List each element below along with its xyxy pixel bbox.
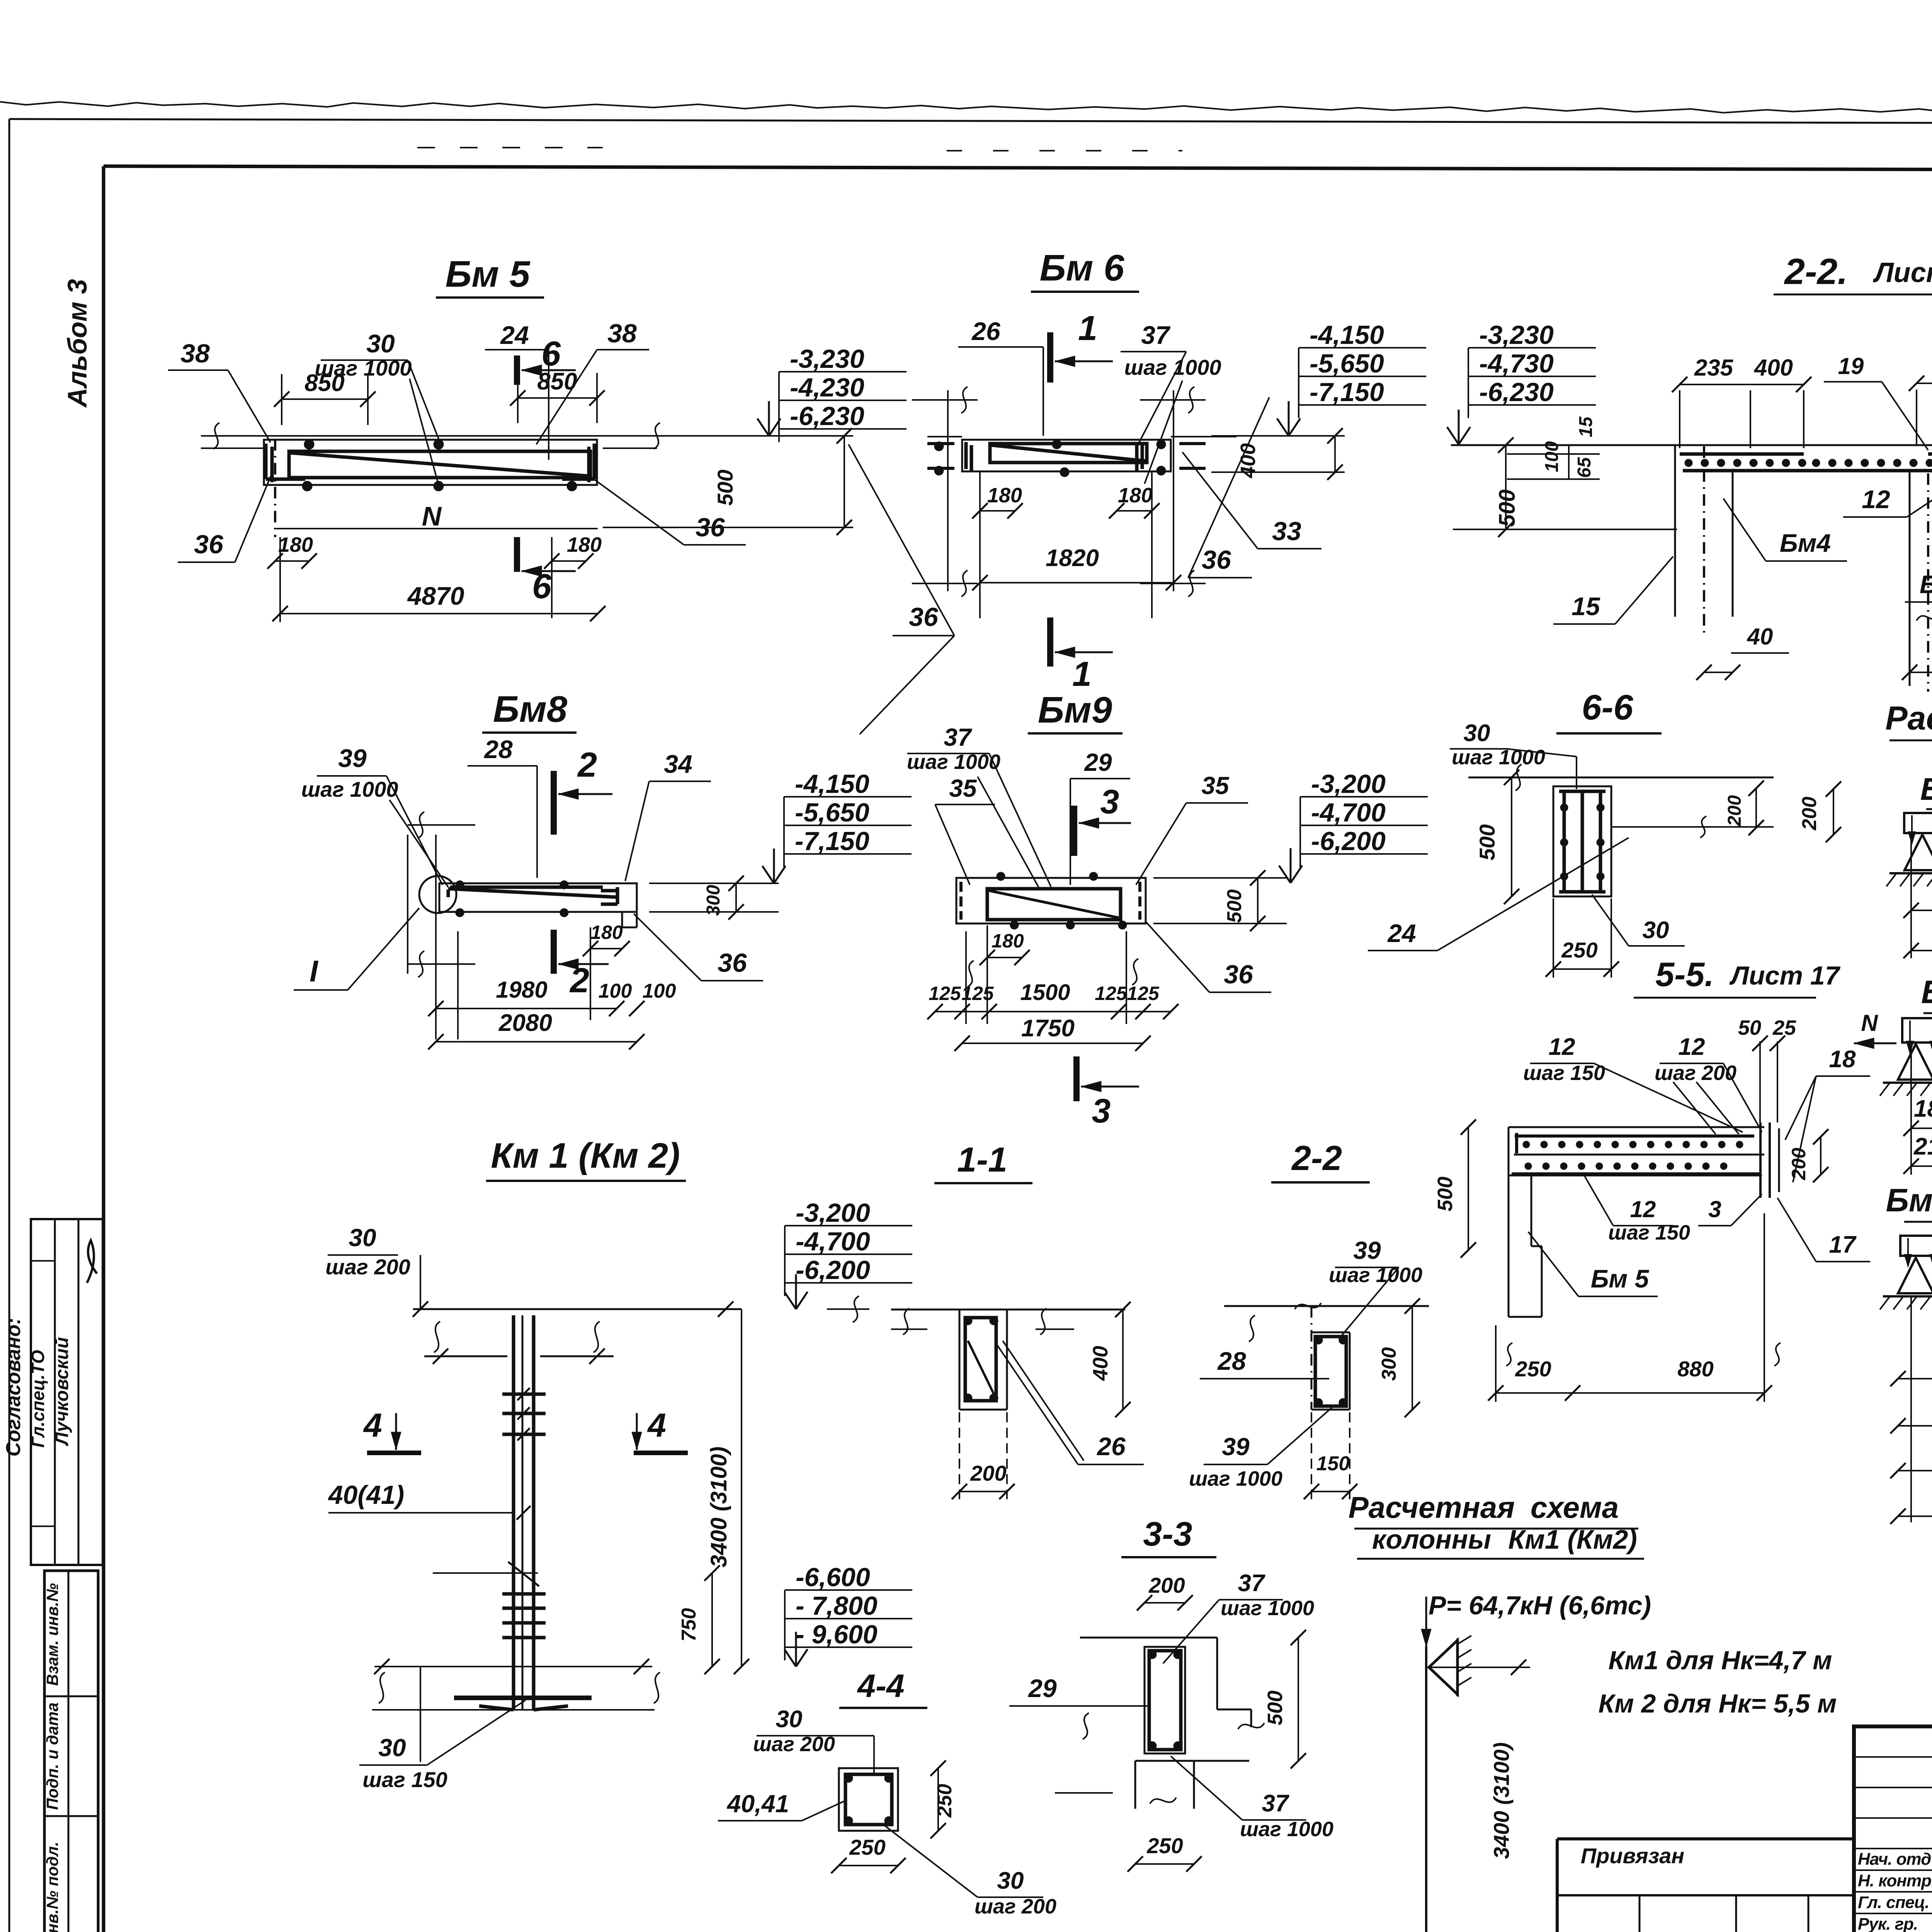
svg-text:-6,200: -6,200 — [796, 1255, 870, 1285]
svg-text:Нач. отд: Нач. отд — [1858, 1850, 1931, 1869]
lower stamp table (Взам.инв.№ / Подп. и дата / Инв.№ подл.) — [44, 1571, 98, 1932]
svg-text:Гл. спец.: Гл. спец. — [1858, 1893, 1929, 1912]
3-3 column outline — [1145, 1647, 1185, 1753]
svg-text:-7,150: -7,150 — [795, 827, 869, 856]
5-5 slab body — [1509, 1126, 1764, 1128]
svg-text:Взам. инв.№: Взам. инв.№ — [43, 1583, 61, 1686]
svg-text:Н. контр.: Н. контр. — [1858, 1871, 1932, 1890]
svg-text:500: 500 — [1264, 1690, 1287, 1725]
Бм9 rebar dots — [997, 872, 1005, 881]
svg-text:38: 38 — [607, 319, 637, 348]
svg-text:шаг 1000: шаг 1000 — [1189, 1467, 1282, 1490]
top line — [413, 1308, 742, 1310]
svg-text:150: 150 — [1316, 1452, 1350, 1475]
Бм6 rebar dots — [1052, 440, 1061, 449]
bottom lines — [374, 1666, 652, 1667]
svg-text:12: 12 — [1862, 485, 1890, 514]
dim 500 (5-5) — [1468, 1127, 1469, 1250]
column bar hooks bottom — [479, 1706, 514, 1710]
svg-text:-6,230: -6,230 — [790, 401, 864, 431]
svg-text:15: 15 — [1576, 416, 1596, 437]
svg-text:4: 4 — [647, 1407, 666, 1444]
extension lines — [1910, 1295, 1912, 1522]
svg-text:Км 2 для Нк= 5,5 м: Км 2 для Нк= 5,5 м — [1599, 1689, 1837, 1718]
scan dash artifacts below top border — [417, 147, 603, 148]
svg-text:125: 125 — [1127, 983, 1160, 1004]
svg-text:шаг 1000: шаг 1000 — [1221, 1597, 1314, 1620]
3-3 bottom — [1135, 1760, 1249, 1762]
beam w/ load — [1902, 1018, 1932, 1043]
svg-text:Подп. и дата: Подп. и дата — [43, 1702, 61, 1810]
vertical guides — [435, 835, 437, 1039]
svg-text:Гл.спец.ТО: Гл.спец.ТО — [28, 1350, 48, 1447]
Бм8 bold rebar — [448, 889, 618, 897]
svg-text:Км 1 (Км 2): Км 1 (Км 2) — [491, 1136, 680, 1175]
svg-text:-7,150: -7,150 — [1310, 378, 1384, 407]
dim 500 right of Бм9 — [1153, 877, 1287, 879]
Бм9 inner bold rect + diagonal — [987, 889, 1121, 920]
svg-text:39: 39 — [1353, 1236, 1381, 1264]
svg-text:200: 200 — [970, 1461, 1006, 1485]
svg-text:300: 300 — [1378, 1347, 1400, 1381]
svg-text:180: 180 — [278, 533, 313, 556]
6-6 dim 500 — [1511, 777, 1512, 896]
1-1 slab + walls — [891, 1309, 1125, 1311]
svg-text:29: 29 — [1027, 1674, 1057, 1702]
svg-text:шаг 1000: шаг 1000 — [1452, 746, 1545, 769]
svg-text:36: 36 — [194, 530, 224, 559]
svg-text:36: 36 — [1224, 960, 1253, 989]
svg-text:3400 (3100): 3400 (3100) — [706, 1447, 731, 1568]
6-6 top slab line — [1468, 777, 1774, 779]
svg-text:шаг 1000: шаг 1000 — [1240, 1818, 1333, 1841]
svg-text:Бм7: Бм7 — [1920, 570, 1932, 599]
svg-text:1820: 1820 — [1046, 545, 1099, 571]
svg-text:шаг 150: шаг 150 — [362, 1767, 447, 1792]
svg-text:40,41: 40,41 — [726, 1790, 789, 1818]
svg-text:34: 34 — [664, 750, 692, 778]
svg-text:30: 30 — [1643, 917, 1669, 944]
svg-text:1500: 1500 — [1020, 980, 1070, 1005]
svg-text:4870: 4870 — [407, 582, 464, 610]
svg-text:26: 26 — [971, 317, 1001, 345]
svg-text:40: 40 — [1747, 624, 1773, 650]
svg-text:17: 17 — [1829, 1231, 1857, 1258]
hinge symbol — [1429, 1640, 1458, 1694]
svg-text:колонны: колонны — [1372, 1524, 1491, 1554]
column scheme line — [1425, 1597, 1427, 1647]
svg-text:Бм 5: Бм 5 — [1591, 1264, 1650, 1293]
svg-text:-4,150: -4,150 — [1310, 320, 1384, 350]
svg-text:-6,200: -6,200 — [1311, 827, 1386, 856]
Бм5 dim 500 (right) — [603, 435, 853, 436]
2-2 right wall — [1909, 471, 1911, 686]
marker 3 bottom — [1073, 1056, 1080, 1101]
svg-text:Бм9: Бм9 — [1038, 689, 1112, 731]
svg-text:850: 850 — [304, 370, 344, 396]
svg-text:Согласовано:: Согласовано: — [2, 1318, 25, 1456]
inner drawing frame — [104, 166, 1932, 171]
svg-text:Бм 6: Бм 6 — [1039, 247, 1124, 289]
svg-text:24: 24 — [500, 321, 529, 349]
svg-text:1980: 1980 — [496, 977, 547, 1003]
supports — [1905, 835, 1932, 870]
title block main outline — [1854, 1726, 1932, 1932]
svg-text:12: 12 — [1630, 1196, 1656, 1222]
svg-text:200: 200 — [1798, 797, 1821, 831]
3-3 dim 500 — [1298, 1638, 1299, 1761]
svg-text:880: 880 — [1677, 1357, 1713, 1381]
Бм5 beam outline — [264, 440, 597, 485]
svg-text:250: 250 — [849, 1835, 885, 1859]
svg-text:39: 39 — [338, 744, 367, 772]
svg-text:200: 200 — [1725, 795, 1745, 827]
svg-text:шаг 200: шаг 200 — [325, 1255, 410, 1279]
svg-text:2: 2 — [569, 961, 589, 1000]
right soffit line — [1611, 826, 1774, 828]
svg-text:850: 850 — [537, 368, 577, 395]
svg-text:4-4: 4-4 — [857, 1668, 904, 1704]
1-1 rebar cage — [965, 1318, 996, 1401]
svg-text:30: 30 — [776, 1706, 803, 1733]
2-2 dim 500 — [1505, 445, 1507, 529]
svg-text:1750: 1750 — [1021, 1015, 1075, 1042]
3-3 top slab line — [1080, 1637, 1217, 1639]
svg-text:N: N — [422, 501, 442, 531]
svg-text:Лист 17: Лист 17 — [1729, 961, 1840, 990]
svg-text:Бм 1,Бм 7: Бм 1,Бм 7 — [1920, 772, 1932, 807]
svg-text:3: 3 — [1092, 1092, 1111, 1130]
4-4 dim 250 right — [937, 1768, 939, 1831]
svg-text:180: 180 — [987, 484, 1022, 507]
marker 2 bottom — [551, 930, 557, 974]
svg-text:400: 400 — [1754, 355, 1793, 381]
supports x3 — [1898, 1044, 1932, 1080]
svg-text:30: 30 — [366, 329, 395, 358]
svg-text:-5,650: -5,650 — [1310, 349, 1384, 378]
svg-text:1: 1 — [1078, 309, 1097, 348]
Бм6 beam outline — [962, 440, 1171, 471]
svg-text:125: 125 — [929, 983, 961, 1004]
shoulder lines — [424, 1355, 507, 1357]
svg-text:30: 30 — [349, 1224, 376, 1252]
dim 750 — [433, 1572, 538, 1574]
beam w/ load Бм1Бм7 — [1904, 813, 1932, 833]
svg-text:-4,230: -4,230 — [790, 373, 864, 402]
svg-text:I: I — [310, 954, 318, 988]
Бм8 beam outline — [407, 835, 408, 974]
svg-text:37: 37 — [944, 723, 973, 751]
svg-text:-4,150: -4,150 — [795, 769, 869, 799]
svg-text:29: 29 — [1084, 748, 1112, 776]
column bars — [512, 1315, 515, 1710]
bold vertical rebars — [1563, 791, 1566, 892]
svg-text:12: 12 — [1549, 1034, 1575, 1060]
svg-text:Бм2,Бм4: Бм2,Бм4 — [1921, 974, 1932, 1010]
Бм9 left/right hooks — [959, 882, 963, 920]
Бм5 bent rebar (bold) — [289, 451, 590, 478]
2-2 rebar cage — [1315, 1337, 1346, 1406]
svg-text:Бм4: Бм4 — [1780, 529, 1831, 557]
svg-text:3400 (3100): 3400 (3100) — [1489, 1742, 1514, 1859]
svg-text:5-5.: 5-5. — [1655, 955, 1714, 993]
svg-text:18: 18 — [1829, 1046, 1856, 1073]
svg-text:-3,230: -3,230 — [790, 344, 864, 374]
svg-text:250: 250 — [1561, 938, 1597, 962]
svg-text:37: 37 — [1262, 1790, 1289, 1817]
svg-text:P= 64,7кН (6,6тс): P= 64,7кН (6,6тс) — [1429, 1591, 1651, 1620]
svg-text:3: 3 — [1100, 782, 1119, 821]
svg-text:33: 33 — [1272, 517, 1301, 546]
svg-text:125: 125 — [1095, 983, 1128, 1004]
svg-text:3: 3 — [1708, 1196, 1721, 1222]
dims 3410/4570 — [1910, 837, 1912, 958]
svg-text:500: 500 — [1223, 889, 1246, 923]
outer sheet border — [9, 119, 1932, 124]
svg-text:180: 180 — [567, 533, 602, 556]
stirrup ticks upper — [502, 1393, 546, 1396]
svg-text:2125: 2125 — [1913, 1133, 1932, 1160]
svg-text:Км1 для Нк=4,7 м: Км1 для Нк=4,7 м — [1608, 1646, 1832, 1675]
svg-text:-3,200: -3,200 — [1311, 769, 1386, 799]
stirrup ticks lower — [502, 1592, 546, 1596]
svg-text:-6,230: -6,230 — [1479, 378, 1554, 407]
svg-text:-3,200: -3,200 — [796, 1198, 870, 1228]
approval stamp table (Согласовано) — [31, 1219, 103, 1565]
svg-text:500: 500 — [1475, 824, 1499, 860]
svg-text:-4,730: -4,730 — [1479, 349, 1554, 378]
svg-text:4: 4 — [363, 1407, 382, 1444]
dim 200 right — [1820, 1137, 1821, 1175]
svg-text:36: 36 — [1202, 545, 1231, 575]
4-4 square section — [839, 1768, 898, 1831]
svg-text:26: 26 — [1096, 1432, 1126, 1461]
svg-text:235: 235 — [1694, 355, 1734, 381]
Бм5 slab top line — [201, 435, 853, 437]
top rebar bold — [1515, 1134, 1754, 1138]
svg-text:Лучковский: Лучковский — [52, 1337, 72, 1446]
svg-text:6: 6 — [541, 335, 561, 373]
3-3 steps right — [1216, 1638, 1218, 1709]
lower rebar bold — [1512, 1172, 1760, 1175]
svg-text:40(41): 40(41) — [328, 1480, 405, 1510]
svg-text:36: 36 — [909, 602, 939, 632]
N arrows — [1854, 1043, 1896, 1044]
svg-text:Рук. гр.: Рук. гр. — [1858, 1915, 1918, 1932]
supports — [1898, 1258, 1932, 1293]
svg-text:250: 250 — [934, 1784, 956, 1818]
break squiggles top — [434, 1321, 440, 1352]
right end plate — [1759, 1122, 1762, 1198]
svg-text:Привязан: Привязан — [1581, 1844, 1684, 1868]
vertical guides + breaks — [965, 931, 967, 1024]
Бм6 vertical guides + breaks — [947, 390, 949, 591]
svg-text:35: 35 — [1201, 772, 1230, 799]
svg-text:28: 28 — [1217, 1347, 1246, 1375]
svg-text:15: 15 — [1571, 592, 1600, 621]
2-2 dim 300 — [1412, 1306, 1413, 1410]
2-2 left slab w/ rebar dots — [1680, 452, 1804, 456]
svg-text:125: 125 — [961, 983, 994, 1004]
svg-text:37: 37 — [1238, 1570, 1265, 1597]
section marker 6 (bottom) — [514, 537, 520, 572]
dim 300 (500) right of Бм8 — [649, 883, 779, 884]
svg-text:N: N — [1861, 1010, 1878, 1036]
svg-text:100: 100 — [599, 980, 632, 1002]
svg-text:6-6: 6-6 — [1582, 688, 1634, 727]
svg-text:180: 180 — [992, 930, 1024, 952]
svg-text:Альбом 3: Альбом 3 — [62, 279, 92, 408]
svg-text:65: 65 — [1574, 457, 1595, 478]
svg-text:750: 750 — [678, 1608, 700, 1642]
svg-text:3-3: 3-3 — [1143, 1515, 1192, 1553]
Бм6 slab lines — [927, 436, 962, 437]
svg-text:28: 28 — [483, 735, 513, 764]
signature table rows — [1854, 1756, 1932, 1758]
footing bold line — [454, 1696, 592, 1700]
svg-text:500: 500 — [1495, 490, 1520, 527]
dim 3400(3100) — [1430, 1667, 1530, 1668]
svg-text:- 9,600: - 9,600 — [796, 1620, 878, 1649]
svg-text:200: 200 — [1148, 1573, 1185, 1597]
6-6 column section — [1553, 786, 1611, 896]
svg-text:30: 30 — [1464, 720, 1490, 747]
svg-text:24: 24 — [1387, 919, 1416, 947]
left annex (Привязан) — [1557, 1837, 1854, 1840]
svg-text:Бм 5: Бм 5 — [445, 253, 531, 295]
svg-text:2-2.: 2-2. — [1784, 251, 1848, 292]
svg-text:1: 1 — [1072, 655, 1092, 694]
svg-text:200: 200 — [1788, 1148, 1810, 1180]
svg-text:схема: схема — [1531, 1490, 1619, 1524]
svg-text:38: 38 — [180, 339, 210, 368]
svg-text:шаг 200: шаг 200 — [975, 1895, 1056, 1918]
svg-text:100: 100 — [643, 980, 676, 1002]
beam w/ load — [1900, 1236, 1932, 1256]
svg-text:2-2: 2-2 — [1291, 1139, 1342, 1178]
2-2 walls — [1311, 1306, 1313, 1410]
svg-text:500: 500 — [713, 469, 737, 505]
Бм8 rebar dots — [456, 881, 464, 889]
svg-text:шаг 1000: шаг 1000 — [301, 777, 398, 801]
2-2 left wall — [1674, 445, 1676, 617]
Бм6 bold rebar — [990, 444, 1147, 463]
svg-text:12: 12 — [1679, 1034, 1705, 1060]
svg-text:Расчетные: Расчетные — [1885, 700, 1932, 737]
svg-text:300: 300 — [703, 885, 724, 916]
svg-text:6: 6 — [532, 567, 552, 606]
svg-text:- 7,800: - 7,800 — [796, 1591, 878, 1621]
dim 3400 (3100) — [741, 1309, 742, 1667]
torn paper top edge — [0, 102, 1932, 116]
svg-text:шаг 1000: шаг 1000 — [1329, 1264, 1422, 1287]
svg-text:Км1 (Км2): Км1 (Км2) — [1508, 1524, 1637, 1554]
svg-text:шаг 1000: шаг 1000 — [1124, 355, 1221, 379]
svg-text:1845: 1845 — [1914, 1095, 1932, 1122]
svg-text:180: 180 — [590, 922, 623, 943]
svg-text:250: 250 — [1146, 1833, 1183, 1858]
section marker 1 (bottom) — [1047, 617, 1053, 667]
svg-text:Бм8: Бм8 — [493, 689, 568, 730]
svg-text:35: 35 — [949, 774, 977, 802]
svg-text:2080: 2080 — [498, 1010, 552, 1036]
svg-text:250: 250 — [1515, 1357, 1551, 1381]
dims row для Бм2 — [1910, 1045, 1912, 1175]
svg-text:500: 500 — [1434, 1177, 1457, 1211]
2-2 slab top line — [1451, 444, 1932, 446]
svg-text:2: 2 — [577, 746, 597, 784]
3-3 rebar cage — [1149, 1651, 1181, 1750]
section marker 1 (top) — [1047, 332, 1053, 383]
break squiggles bottom — [379, 1672, 385, 1703]
svg-text:36: 36 — [696, 513, 725, 542]
4-4 rebar cage — [845, 1774, 892, 1825]
svg-text:шаг 150: шаг 150 — [1608, 1221, 1690, 1244]
svg-text:Расчетная: Расчетная — [1349, 1490, 1515, 1524]
svg-text:37: 37 — [1141, 321, 1171, 349]
svg-text:19: 19 — [1838, 353, 1864, 379]
1-1 dim 400 — [1036, 1309, 1132, 1310]
svg-text:Инв.№ подл.: Инв.№ подл. — [43, 1842, 61, 1932]
Бм5 rebar dots — [304, 439, 314, 449]
svg-text:шаг 150: шаг 150 — [1523, 1061, 1605, 1085]
svg-text:-3,230: -3,230 — [1479, 320, 1554, 350]
svg-text:-4,700: -4,700 — [1311, 798, 1386, 827]
Бм5 axis line N — [276, 528, 598, 529]
Бм9 beam outline — [956, 878, 1146, 923]
svg-text:1-1: 1-1 — [957, 1141, 1007, 1179]
svg-text:-6,600: -6,600 — [796, 1563, 870, 1592]
svg-text:36: 36 — [718, 948, 747, 978]
svg-text:30: 30 — [997, 1867, 1024, 1894]
svg-text:39: 39 — [1222, 1433, 1250, 1461]
svg-text:-5,650: -5,650 — [795, 798, 869, 827]
svg-text:50: 50 — [1738, 1016, 1761, 1039]
Бм8 step down at right — [636, 883, 638, 927]
Бм6 walls below — [979, 472, 981, 618]
svg-text:30: 30 — [378, 1734, 406, 1762]
svg-text:100: 100 — [1542, 441, 1562, 472]
wall below — [1531, 1175, 1532, 1246]
circle detail ref on left end — [419, 876, 456, 913]
svg-text:400: 400 — [1089, 1346, 1112, 1381]
svg-text:-4,700: -4,700 — [796, 1227, 870, 1256]
Бм6 dim 400 — [1211, 435, 1345, 437]
2-2 slab line — [1224, 1305, 1429, 1307]
svg-text:Лист 17: Лист 17 — [1872, 257, 1932, 288]
dim 200 left — [1833, 789, 1834, 835]
svg-text:Бм3,Бм5,Бм6,Бм8,Бм9: Бм3,Бм5,Бм6,Бм8,Бм9 — [1886, 1182, 1932, 1218]
